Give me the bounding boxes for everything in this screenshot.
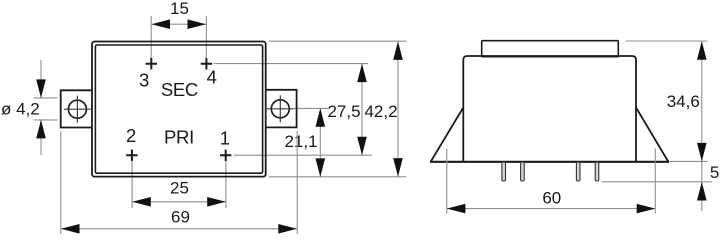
dim 5 arrow up <box>697 182 707 201</box>
dim 34.6 value label <box>667 92 700 111</box>
dim 5 dimension line <box>701 161 703 211</box>
dim 21.1 value label <box>284 132 317 151</box>
dim 69 ext line left (flange edge) <box>60 131 62 234</box>
pin 2 number label <box>126 125 136 146</box>
dim 69 dimension line <box>61 228 297 230</box>
dim 34.6 ext line top (cap top) <box>626 40 708 42</box>
dim 25 ext line left (pin 2) <box>131 155 133 208</box>
pin 3 cross mark <box>146 58 157 69</box>
dim 15 ext line right (pin 4) <box>205 16 207 70</box>
dim 42.2 value label <box>364 102 397 121</box>
dim 4.2 hole top tangent ext line <box>34 97 58 99</box>
dim 60 dimension line <box>447 208 655 210</box>
dim 42.2 ext line bottom (body bottom edge) <box>269 176 407 178</box>
dim 69 value label <box>171 207 190 226</box>
pin 1 cross mark <box>220 150 231 161</box>
dim 27.5 arrow up <box>357 64 367 83</box>
svg-text:SEC: SEC <box>161 79 198 100</box>
svg-text:21,1: 21,1 <box>284 132 317 151</box>
dim 27.5 ext line bottom (from pin 1) <box>234 154 372 156</box>
side view: transformer body outline <box>463 56 636 162</box>
dim 21.1 dimension line <box>319 108 321 177</box>
dim 27.5 ext line top (from pin 4) <box>214 63 369 65</box>
dim 4.2 arrow up <box>36 120 46 138</box>
dim 25 value label <box>170 178 189 197</box>
dim 42.2 arrow down <box>393 158 403 177</box>
side view: left flange wing <box>431 108 464 162</box>
svg-text:34,6: 34,6 <box>667 92 700 111</box>
svg-text:4: 4 <box>207 67 217 88</box>
SEC winding label <box>161 79 198 100</box>
dim 5 ext line (pin bottoms) <box>602 181 712 183</box>
dim 25 ext line right (pin 1) <box>225 155 227 208</box>
dim 60 ext line right <box>654 149 656 214</box>
side view: pin 2 <box>521 162 525 181</box>
dim 25 arrow right <box>207 197 226 207</box>
dim 15 arrow right <box>188 19 207 29</box>
dim 4.2 dimension line lower segment <box>40 120 42 155</box>
dim 69 arrow left <box>61 224 80 234</box>
dim 4.2 hole bottom tangent ext line <box>34 119 58 121</box>
svg-text:3: 3 <box>139 70 149 91</box>
top view: right mounting flange <box>266 90 297 128</box>
pin 4 cross mark <box>201 58 212 69</box>
dim 15 dimension line <box>152 23 207 25</box>
side view: top cap outline <box>482 41 619 57</box>
pin 3 number label <box>139 70 149 91</box>
dim 27.5 arrow down <box>357 137 367 156</box>
dim 42.2 dimension line <box>397 41 399 176</box>
dim 69 ext line right (flange edge) <box>296 131 298 234</box>
dim 34.6 ext line bottom (base line) <box>669 160 708 162</box>
side view: right flange wing <box>636 108 668 162</box>
dim 15 arrow left <box>152 19 171 29</box>
dim 60 value label <box>542 189 561 208</box>
left flange hole circle <box>68 100 86 118</box>
top view: transformer body inner outline <box>95 45 262 173</box>
dim 21.1 arrow up <box>316 108 326 127</box>
dim 42.2 arrow up <box>393 41 403 60</box>
pin 2 cross mark <box>126 150 137 161</box>
svg-text:2: 2 <box>126 125 136 146</box>
dim 21.1 arrow down <box>316 158 326 177</box>
dim 5 value label <box>710 163 719 182</box>
dim 69 arrow right <box>278 224 297 234</box>
dim 27.5 dimension line <box>361 64 363 156</box>
dim 21.1 ext line top (hole centre) <box>294 107 329 109</box>
top view: left mounting flange <box>61 90 92 127</box>
svg-text:42,2: 42,2 <box>364 102 397 121</box>
dim 27.5 value label <box>327 102 360 121</box>
pin 4 number label <box>207 67 217 88</box>
svg-text:PRI: PRI <box>164 127 194 148</box>
left flange hole crosshair <box>64 96 91 123</box>
right flange hole circle <box>271 100 289 118</box>
dim 34.6 arrow up <box>697 41 707 60</box>
PRI winding label <box>164 127 194 148</box>
dim 4.2 dimension line upper segment <box>40 60 42 98</box>
dim 34.6 dimension line <box>701 41 703 161</box>
dim 15 ext line left (pin 3) <box>150 16 152 70</box>
side view: pin 1 <box>502 162 506 181</box>
svg-text:69: 69 <box>171 207 190 226</box>
dim 42.2 ext line top (body top edge) <box>269 40 407 42</box>
svg-text:1: 1 <box>220 128 230 149</box>
dim 25 dimension line <box>132 201 225 203</box>
svg-text:15: 15 <box>170 0 189 18</box>
dim 25 arrow left <box>132 197 151 207</box>
dim 60 arrow left <box>447 204 466 214</box>
dim 34.6 / dim 5 shared arrow down <box>697 143 707 162</box>
pin 1 number label <box>220 128 230 149</box>
side view: base line <box>430 161 669 163</box>
svg-text:ø 4,2: ø 4,2 <box>1 100 40 119</box>
svg-text:5: 5 <box>710 163 719 182</box>
dim 60 arrow right <box>637 204 656 214</box>
svg-text:60: 60 <box>542 189 561 208</box>
side view: pin 3 <box>576 162 580 181</box>
dim 4.2 value label <box>1 100 40 119</box>
top view: transformer body outer outline <box>92 42 266 177</box>
dim 60 ext line left <box>446 149 448 214</box>
dim 15 value label <box>170 0 189 18</box>
dim 4.2 arrow down <box>36 79 46 98</box>
right flange hole crosshair <box>267 95 294 122</box>
svg-text:27,5: 27,5 <box>327 102 360 121</box>
svg-text:25: 25 <box>170 178 189 197</box>
side view: pin 4 <box>595 162 599 181</box>
